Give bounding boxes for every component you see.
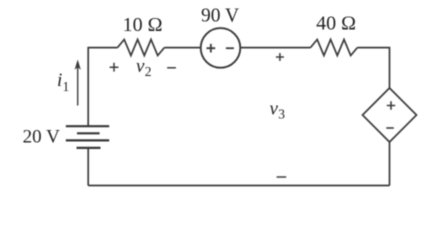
plus polarity inside 90V source bbox=[207, 44, 216, 53]
wire: right rail, dependent source to bottom bbox=[389, 142, 391, 186]
minus polarity of v3 bbox=[277, 176, 287, 178]
svg-text:2: 2 bbox=[145, 64, 152, 79]
wire: top rail, 90V source to 40 ohm resistor bbox=[240, 47, 310, 49]
wire: top rail, resistor to 90V source bbox=[164, 47, 200, 49]
resistor 10 ohm (zigzag) bbox=[118, 40, 165, 56]
svg-text:20 V: 20 V bbox=[23, 126, 60, 147]
svg-text:v: v bbox=[270, 99, 279, 120]
plus polarity inside dependent source bbox=[387, 101, 395, 109]
minus polarity inside 90V source bbox=[226, 47, 234, 49]
svg-text:3: 3 bbox=[278, 106, 285, 121]
wire: bottom rail bbox=[88, 185, 389, 187]
svg-text:i: i bbox=[57, 70, 62, 91]
plus polarity of v2 bbox=[110, 63, 119, 72]
wire: left rail below battery bbox=[87, 148, 89, 186]
voltage source 90 V (circle) bbox=[201, 28, 241, 68]
current arrow i1 bbox=[75, 60, 81, 106]
battery 20 V (plates) bbox=[66, 126, 109, 148]
svg-text:1: 1 bbox=[63, 79, 70, 94]
wire: top-right corner segment down to dependent source bbox=[357, 48, 389, 88]
dependent source (diamond) bbox=[363, 88, 417, 142]
minus polarity of v2 bbox=[167, 67, 176, 69]
svg-text:40 Ω: 40 Ω bbox=[316, 13, 356, 35]
wire: top-left corner segment (left rail top + top rail to resistor) bbox=[88, 48, 117, 126]
resistor 40 ohm (zigzag) bbox=[311, 40, 358, 56]
svg-text:90 V: 90 V bbox=[201, 6, 239, 27]
minus polarity inside dependent source bbox=[386, 127, 394, 129]
plus polarity of v3 bbox=[276, 53, 284, 61]
svg-text:v: v bbox=[136, 56, 145, 77]
svg-text:10 Ω: 10 Ω bbox=[123, 14, 163, 36]
